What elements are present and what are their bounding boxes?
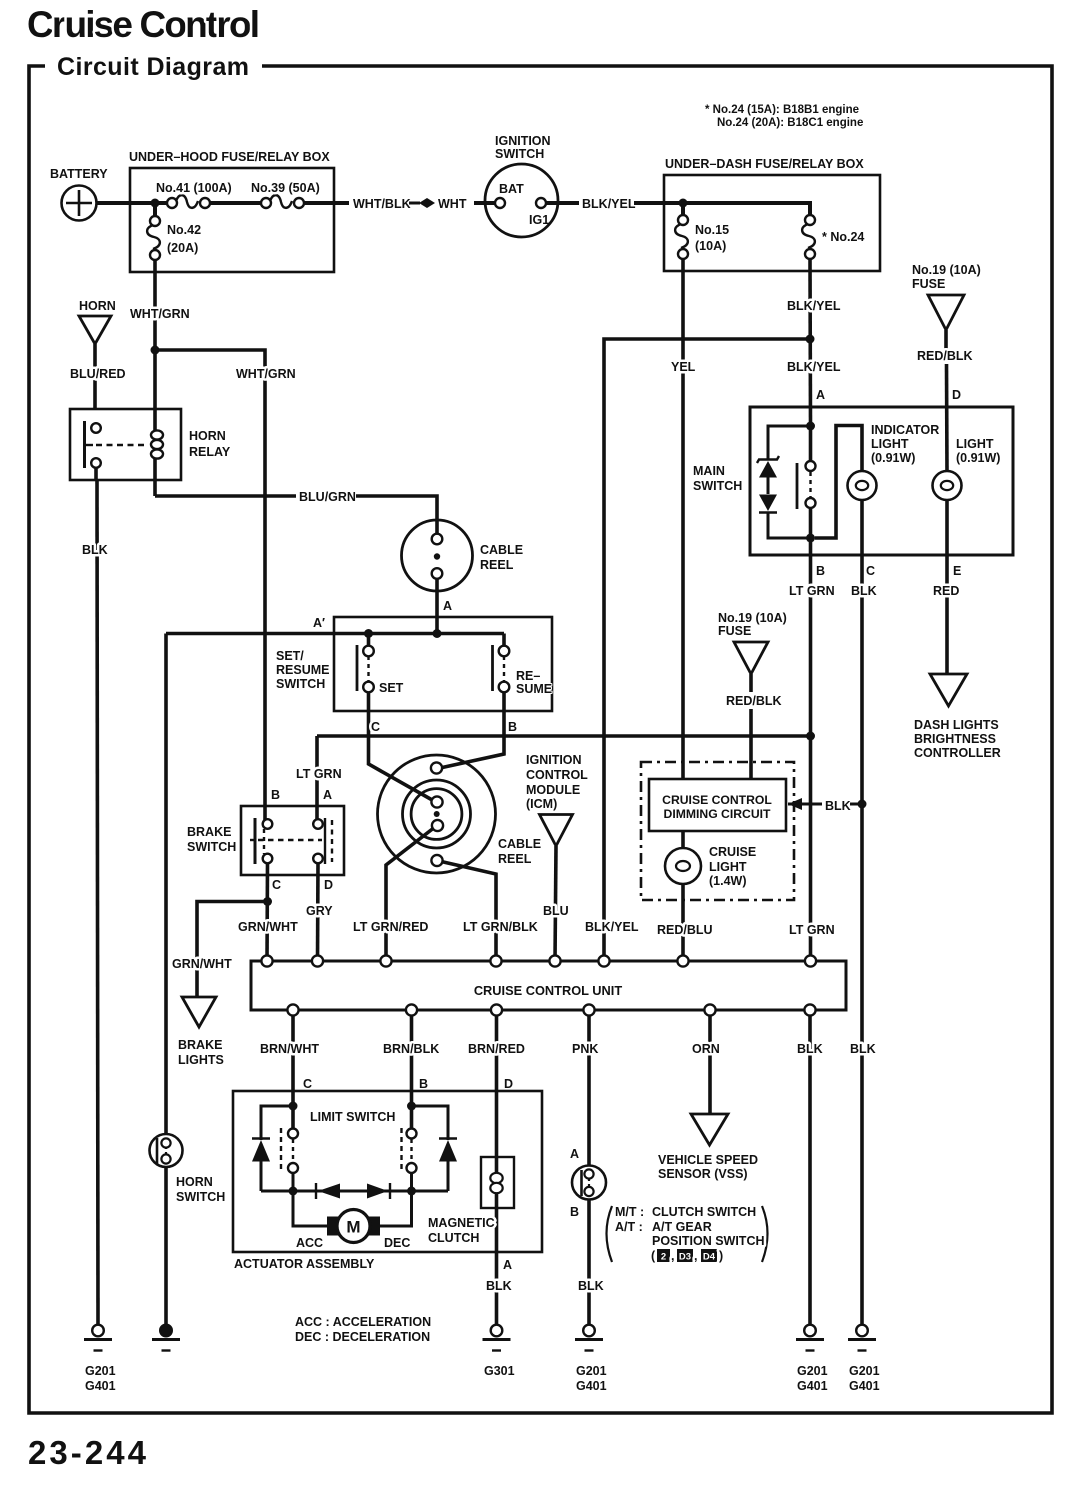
label G201 G401 main	[849, 1364, 880, 1393]
svg-text:BLK: BLK	[850, 1042, 876, 1056]
svg-text:MAGNETIC: MAGNETIC	[428, 1216, 495, 1230]
svg-text:,: ,	[694, 1249, 697, 1263]
wire LT GRN main switch B to unit	[789, 538, 835, 961]
junction rail right	[407, 1187, 416, 1196]
label SET	[379, 681, 404, 695]
gear position symbols (2, D3, D4)	[651, 1249, 723, 1263]
diode D3 on rail	[316, 1183, 340, 1199]
fuse No.19 (10A) lower connector	[718, 611, 787, 674]
wire horn switch line	[164, 634, 168, 1135]
label No.24	[822, 230, 864, 244]
label G201 G401 unit	[797, 1364, 828, 1393]
svg-text:BAT: BAT	[499, 182, 524, 196]
wire B resume switch to cable reel	[440, 692, 517, 768]
svg-text:A: A	[503, 1258, 512, 1272]
wire BLU/GRN relay coil to cable reel	[155, 480, 437, 539]
note No.24 fuse engine variants	[705, 104, 863, 129]
junction limit switch left	[289, 1102, 298, 1111]
battery B1	[62, 186, 97, 221]
actuator bottom rail	[261, 1190, 448, 1193]
svg-text:CONTROL: CONTROL	[526, 768, 588, 782]
svg-text:A/T GEAR: A/T GEAR	[652, 1220, 712, 1234]
svg-text:BLK: BLK	[486, 1279, 512, 1293]
svg-text:INDICATOR: INDICATOR	[871, 423, 939, 437]
ground G201/G401 clutch switch	[575, 1325, 603, 1351]
svg-text:SWITCH: SWITCH	[187, 840, 236, 854]
main switch contact	[797, 426, 816, 538]
wire horn switch to ground	[164, 1167, 168, 1326]
svg-text:YEL: YEL	[671, 360, 696, 374]
pin BAT	[495, 198, 505, 208]
svg-text:CLUTCH: CLUTCH	[428, 1231, 479, 1245]
pin IG1	[536, 198, 546, 208]
svg-text:E: E	[953, 564, 961, 578]
vehicle speed sensor connector	[658, 1114, 758, 1181]
wire limit switch right to rail	[410, 1173, 413, 1191]
cruise light bulb	[665, 831, 756, 888]
wire reel out to LT GRN/RED	[386, 827, 435, 961]
svg-text:BLK: BLK	[825, 799, 851, 813]
svg-text:): )	[719, 1249, 723, 1263]
svg-text:DEC : DECELERATION: DEC : DECELERATION	[295, 1330, 430, 1344]
svg-text:A: A	[570, 1147, 579, 1161]
wire E RED light to dash controller	[933, 499, 961, 674]
svg-text:WHT/GRN: WHT/GRN	[130, 307, 190, 321]
svg-text:CLUTCH SWITCH: CLUTCH SWITCH	[652, 1205, 756, 1219]
svg-text:G201: G201	[849, 1364, 880, 1378]
ignition control module (ICM)	[526, 753, 588, 846]
diode D1 branch	[252, 1106, 293, 1191]
wire indicator light loop	[815, 426, 862, 539]
diode CR2	[759, 495, 777, 513]
cable reel lower terminals	[431, 762, 443, 866]
svg-text:(10A): (10A)	[695, 239, 726, 253]
dash lights brightness controller connector	[914, 674, 1001, 760]
svg-text:CRUISE CONTROL: CRUISE CONTROL	[662, 793, 772, 807]
svg-text:(0.91W): (0.91W)	[956, 451, 1000, 465]
svg-text:ACTUATOR ASSEMBLY: ACTUATOR ASSEMBLY	[234, 1257, 375, 1271]
svg-text:REEL: REEL	[498, 852, 532, 866]
svg-text:C: C	[866, 564, 875, 578]
legend ACC/DEC	[295, 1315, 431, 1344]
label G201 G401 clutch	[576, 1364, 607, 1393]
brake lights connector triangle	[178, 997, 224, 1067]
wire WHT/GRN down from No.42	[130, 260, 190, 409]
svg-text:BRAKE: BRAKE	[178, 1038, 222, 1052]
svg-text:No.39 (50A): No.39 (50A)	[251, 181, 320, 195]
wire BRN/BLK unit to limit switch	[383, 1016, 439, 1129]
main switch diode branch	[768, 426, 811, 538]
wire WHT/GRN branch to brake switch B	[155, 350, 296, 824]
svg-text:G401: G401	[849, 1379, 880, 1393]
svg-text:DEC: DEC	[384, 1236, 410, 1250]
wire C set switch to cable reel	[369, 692, 435, 801]
svg-text:SWITCH: SWITCH	[693, 479, 742, 493]
svg-text:G201: G201	[85, 1364, 116, 1378]
svg-text:* No.24: * No.24	[822, 230, 864, 244]
svg-text:A: A	[323, 788, 332, 802]
label No.39 (50A)	[251, 181, 320, 195]
wire battery to under-hood box	[97, 201, 132, 205]
magnetic clutch coil	[428, 1157, 514, 1245]
svg-text:A/T :: A/T :	[615, 1220, 643, 1234]
svg-text:FUSE: FUSE	[912, 277, 945, 291]
svg-text:WHT/BLK: WHT/BLK	[353, 197, 411, 211]
svg-text:HORN: HORN	[189, 429, 226, 443]
junction limit switch right	[407, 1102, 416, 1111]
svg-text:RED: RED	[933, 584, 959, 598]
cruise control dimming circuit dashed box	[641, 762, 794, 900]
svg-text:HORN: HORN	[79, 299, 116, 313]
wire feed inside box	[130, 201, 172, 205]
svg-text:G301: G301	[484, 1364, 515, 1378]
wire BRN/RED unit to magnetic clutch	[468, 1016, 525, 1325]
junction A at reel drop	[433, 629, 442, 638]
wire BLK/YEL branch rail	[585, 339, 810, 961]
wire GRN/WHT branch to brake lights	[172, 902, 268, 998]
svg-text:WHT/GRN: WHT/GRN	[236, 367, 296, 381]
under-dash fuse/relay box	[664, 157, 880, 271]
junction main switch bottom	[806, 534, 815, 543]
wire BLK relay to ground	[82, 468, 108, 1325]
zener diode CR1	[757, 456, 779, 494]
svg-text:SUME: SUME	[516, 682, 552, 696]
unit top pins	[261, 955, 816, 966]
indicator light bulb	[848, 423, 940, 500]
wire RED/BLK fuse No.19 to main switch D	[917, 330, 973, 473]
svg-text:LT GRN/BLK: LT GRN/BLK	[463, 920, 538, 934]
svg-text:GRN/WHT: GRN/WHT	[172, 957, 232, 971]
wire GRY brake switch D to unit	[306, 863, 333, 961]
junction rail left	[289, 1187, 298, 1196]
svg-text:ORN: ORN	[692, 1042, 720, 1056]
svg-text:B: B	[271, 788, 280, 802]
svg-text:CRUISE CONTROL UNIT: CRUISE CONTROL UNIT	[474, 983, 623, 998]
svg-text:GRY: GRY	[306, 904, 333, 918]
svg-text:LIMIT SWITCH: LIMIT SWITCH	[310, 1110, 395, 1124]
dimming circuit block	[649, 779, 786, 831]
svg-text:DASH LIGHTS: DASH LIGHTS	[914, 718, 999, 732]
svg-text:SENSOR (VSS): SENSOR (VSS)	[658, 1167, 748, 1181]
svg-text:Circuit Diagram: Circuit Diagram	[57, 53, 249, 81]
svg-text:(1.4W): (1.4W)	[709, 874, 747, 888]
svg-text:LIGHT: LIGHT	[709, 860, 747, 874]
wire BLK/YEL fuse No.24 to main switch A	[787, 259, 841, 426]
svg-text:BLK/YEL: BLK/YEL	[787, 299, 841, 313]
ground G301 magnetic clutch	[483, 1325, 511, 1351]
junction main switch top	[806, 422, 815, 431]
svg-text:M: M	[346, 1218, 360, 1237]
junction at fuse No.42 tap	[151, 199, 160, 208]
svg-text:BLK: BLK	[82, 543, 108, 557]
wire BLK unit to ground	[797, 1016, 823, 1325]
motor M leads	[293, 1191, 412, 1226]
svg-text:ACC : ACCELERATION: ACC : ACCELERATION	[295, 1315, 431, 1329]
svg-text:MAIN: MAIN	[693, 464, 725, 478]
ground G201/G401 unit BLK	[796, 1325, 824, 1351]
brake switch	[187, 806, 344, 875]
svg-text:MODULE: MODULE	[526, 783, 580, 797]
svg-text:B: B	[419, 1077, 428, 1091]
svg-text:WHT: WHT	[438, 197, 467, 211]
wire BLK/YEL ignition to under-dash box	[546, 197, 683, 211]
svg-text:,: ,	[671, 1249, 674, 1263]
limit switch left contact	[281, 1128, 298, 1173]
horn relay contact	[85, 421, 149, 468]
label A BLK magnetic clutch ground lead	[486, 1258, 512, 1293]
svg-text:DIMMING CIRCUIT: DIMMING CIRCUIT	[664, 807, 772, 821]
svg-text:A′: A′	[313, 616, 325, 630]
svg-text:(20A): (20A)	[167, 241, 198, 255]
svg-text:HORN: HORN	[176, 1175, 213, 1189]
svg-text:No.41 (100A): No.41 (100A)	[156, 181, 232, 195]
ground G201/G401 relay BLK	[84, 1325, 112, 1351]
svg-text:BLK: BLK	[851, 584, 877, 598]
svg-text:B: B	[570, 1205, 579, 1219]
fuse No.42 (20A)	[147, 216, 160, 260]
wire A cable reel to set/resume	[437, 579, 452, 633]
svg-text:IG1: IG1	[529, 213, 549, 227]
set switch contact	[357, 634, 374, 693]
svg-text:C: C	[303, 1077, 312, 1091]
svg-text:SET: SET	[379, 681, 404, 695]
wire between fuses	[210, 201, 266, 205]
wire WHT/GRN fuse No.42 feed	[153, 203, 157, 221]
horn relay	[70, 409, 231, 480]
svg-text:BRN/WHT: BRN/WHT	[260, 1042, 319, 1056]
svg-text:BLU/RED: BLU/RED	[70, 367, 126, 381]
svg-text:G201: G201	[576, 1364, 607, 1378]
ignition switch	[485, 134, 558, 237]
svg-text:BRN/BLK: BRN/BLK	[383, 1042, 439, 1056]
junction A at set switch	[364, 629, 373, 638]
svg-text:ACC: ACC	[296, 1236, 323, 1250]
motor M	[327, 1210, 380, 1243]
cable reel lower	[378, 755, 496, 873]
svg-text:B: B	[508, 720, 517, 734]
subtitle Circuit Diagram	[57, 53, 249, 81]
junction BLK	[858, 800, 867, 809]
unit bottom pins	[287, 1004, 815, 1015]
junction LT GRN rail	[806, 732, 815, 741]
clutch switch	[570, 1147, 606, 1219]
wire limit switch left to rail	[292, 1173, 295, 1191]
svg-text:BLK: BLK	[797, 1042, 823, 1056]
wire BRN/WHT unit to limit switch	[260, 1016, 319, 1129]
wire to fuse No.24	[683, 203, 810, 220]
wire C BLK from indicator	[851, 499, 877, 804]
ground G201/G401 main switch BLK	[848, 1325, 876, 1351]
svg-text:RED/BLK: RED/BLK	[726, 694, 782, 708]
svg-text:POSITION SWITCH: POSITION SWITCH	[652, 1234, 765, 1248]
page number 23-244	[28, 1434, 147, 1471]
light bulb	[933, 437, 1001, 500]
svg-text:CABLE: CABLE	[498, 837, 541, 851]
junction at No.15 tap	[679, 199, 688, 208]
svg-text:BLU/GRN: BLU/GRN	[299, 490, 356, 504]
svg-text:No.24 (20A): B18C1 engine: No.24 (20A): B18C1 engine	[717, 117, 863, 129]
battery label	[50, 167, 108, 181]
label G301	[484, 1364, 515, 1378]
junction BLK/YEL	[806, 335, 815, 344]
svg-text:GRN/WHT: GRN/WHT	[238, 920, 298, 934]
svg-text:BRIGHTNESS: BRIGHTNESS	[914, 732, 996, 746]
svg-text:RELAY: RELAY	[189, 445, 231, 459]
svg-text:BLK: BLK	[578, 1279, 604, 1293]
wire PNK unit to clutch switch	[572, 1016, 598, 1166]
svg-text:23-244: 23-244	[28, 1434, 147, 1471]
svg-text:CRUISE: CRUISE	[709, 845, 756, 859]
fuse No.41 (100A)	[167, 195, 210, 208]
label No.41 (100A)	[156, 181, 232, 195]
clutch switch note block	[607, 1205, 768, 1262]
cable reel lower label	[498, 837, 541, 866]
svg-text:RESUME: RESUME	[276, 663, 329, 677]
title Cruise Control	[27, 4, 260, 45]
labels ACC DEC	[296, 1236, 410, 1250]
fuse No.39 (50A)	[261, 195, 304, 208]
label RESUME	[516, 669, 552, 696]
svg-text:LIGHT: LIGHT	[956, 437, 994, 451]
wire BLK clutch switch to ground	[578, 1199, 604, 1325]
labels LT GRN/RED and LT GRN/BLK	[353, 920, 538, 934]
actuator assembly box	[233, 1091, 542, 1271]
wire WHT/BLK out of box	[304, 197, 411, 211]
cable reel upper label	[480, 543, 523, 572]
fuse No.24	[802, 215, 815, 259]
svg-text:PNK: PNK	[572, 1042, 598, 1056]
wire A' rail	[166, 632, 504, 636]
svg-text:C: C	[371, 720, 380, 734]
svg-text:G401: G401	[85, 1379, 116, 1393]
svg-text:No.19 (10A): No.19 (10A)	[718, 611, 787, 625]
wire BLU/RED horn to relay	[70, 344, 126, 409]
svg-text:LIGHT: LIGHT	[871, 437, 909, 451]
svg-text:(0.91W): (0.91W)	[871, 451, 915, 465]
horn switch	[150, 1134, 226, 1204]
wire RED/BLU cruise light to unit	[657, 883, 713, 961]
fuse No.19 (10A) upper connector	[912, 263, 981, 330]
svg-text:No.15: No.15	[695, 223, 729, 237]
label No.15 (10A)	[695, 223, 729, 253]
wire LT GRN rail main switch B to brake switch A	[271, 736, 811, 824]
under-hood fuse/relay box	[129, 150, 334, 272]
svg-text:LT GRN: LT GRN	[789, 923, 835, 937]
svg-text:D: D	[324, 878, 333, 892]
fuse No.15 (10A)	[675, 203, 688, 259]
horn relay coil	[151, 409, 163, 480]
svg-text:IGNITION: IGNITION	[495, 134, 551, 148]
svg-text:M/T :: M/T :	[615, 1205, 644, 1219]
diode D4 on rail	[367, 1183, 390, 1199]
label No.42 (20A)	[167, 223, 201, 255]
svg-text:BLK/YEL: BLK/YEL	[787, 360, 841, 374]
ground horn switch (solid)	[152, 1325, 180, 1351]
svg-text:BLU: BLU	[543, 904, 569, 918]
svg-text:BATTERY: BATTERY	[50, 167, 108, 181]
diode D2 branch	[412, 1106, 458, 1191]
junction WHT/GRN branch	[151, 346, 160, 355]
svg-text:UNDER–DASH FUSE/RELAY BOX: UNDER–DASH FUSE/RELAY BOX	[665, 157, 864, 171]
svg-text:G401: G401	[576, 1379, 607, 1393]
svg-text:IGNITION: IGNITION	[526, 753, 582, 767]
svg-text:A: A	[443, 599, 452, 613]
svg-text:SWITCH: SWITCH	[176, 1190, 225, 1204]
svg-text:SET/: SET/	[276, 649, 304, 663]
wire WHT to ignition switch	[438, 197, 496, 211]
svg-text:BRN/RED: BRN/RED	[468, 1042, 525, 1056]
svg-text:D: D	[504, 1077, 513, 1091]
svg-text:BRAKE: BRAKE	[187, 825, 231, 839]
svg-text:BLK/YEL: BLK/YEL	[585, 920, 639, 934]
svg-text:REEL: REEL	[480, 558, 514, 572]
svg-text:No.42: No.42	[167, 223, 201, 237]
svg-text:RED/BLU: RED/BLU	[657, 923, 713, 937]
inline connector diamond	[409, 198, 435, 208]
limit switch right contact	[402, 1128, 417, 1173]
svg-text:D3: D3	[679, 1252, 691, 1263]
svg-text:FUSE: FUSE	[718, 624, 751, 638]
wire BLK main switch C to ground	[850, 804, 876, 1325]
wire GRN/WHT brake switch C to unit	[238, 863, 298, 961]
horn connector triangle	[79, 299, 116, 344]
svg-text:UNDER–HOOD FUSE/RELAY BOX: UNDER–HOOD FUSE/RELAY BOX	[129, 150, 330, 164]
svg-text:G401: G401	[797, 1379, 828, 1393]
svg-text:D: D	[952, 388, 961, 402]
set/resume switch box	[276, 616, 552, 711]
svg-text:RE–: RE–	[516, 669, 540, 683]
cruise control unit box	[251, 961, 846, 1010]
svg-text:No.19 (10A): No.19 (10A)	[912, 263, 981, 277]
wire RED/BLK to dimming circuit	[726, 674, 782, 779]
svg-text:LT GRN: LT GRN	[296, 767, 342, 781]
svg-text:LIGHTS: LIGHTS	[178, 1053, 224, 1067]
svg-text:VEHICLE SPEED: VEHICLE SPEED	[658, 1153, 758, 1167]
svg-text:RED/BLK: RED/BLK	[917, 349, 973, 363]
svg-text:* No.24 (15A): B18B1 engine: * No.24 (15A): B18B1 engine	[705, 104, 859, 116]
svg-text:C: C	[272, 878, 281, 892]
svg-text:B: B	[816, 564, 825, 578]
svg-text:LT GRN/RED: LT GRN/RED	[353, 920, 428, 934]
svg-text:2: 2	[661, 1252, 666, 1263]
wire YEL fuse No.15 to dimming circuit	[671, 259, 696, 779]
svg-text:A: A	[816, 388, 825, 402]
cable reel upper	[402, 520, 473, 591]
label G201 G401 left	[85, 1364, 116, 1393]
wire reel out to LT GRN/BLK	[439, 861, 496, 961]
svg-text:SWITCH: SWITCH	[495, 147, 544, 161]
svg-text:LT GRN: LT GRN	[789, 584, 835, 598]
resume switch contact	[493, 634, 510, 693]
svg-text:G201: G201	[797, 1364, 828, 1378]
svg-text:BLK/YEL: BLK/YEL	[582, 197, 636, 211]
wire ORN unit to VSS	[692, 1016, 720, 1114]
svg-text:Cruise Control: Cruise Control	[27, 4, 260, 45]
svg-text:SWITCH: SWITCH	[276, 677, 325, 691]
wire BLU ICM to unit	[543, 846, 569, 961]
junction GRN/WHT branch	[263, 897, 272, 906]
brake switch contacts	[250, 818, 332, 864]
svg-text:(ICM): (ICM)	[526, 797, 557, 811]
svg-text:D4: D4	[703, 1252, 716, 1263]
svg-text:CABLE: CABLE	[480, 543, 523, 557]
svg-text:CONTROLLER: CONTROLLER	[914, 746, 1001, 760]
main switch box	[693, 407, 1013, 555]
wire BLK dimming to BLK column	[788, 798, 862, 813]
